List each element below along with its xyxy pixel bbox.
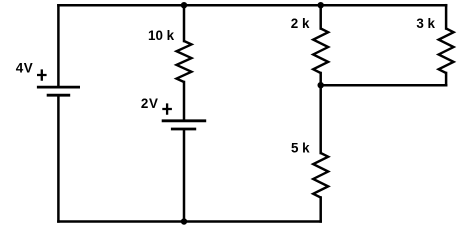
wire 10k to 2V battery: [183, 82, 186, 119]
plus sign of battery V2: [162, 103, 172, 114]
resistor 5k: [313, 153, 328, 198]
wire middle horizontal: [321, 84, 446, 87]
plus sign of battery V1: [37, 69, 47, 80]
resistor 10k: [177, 41, 192, 82]
svg-text:3 k: 3 k: [416, 16, 435, 31]
wire 2k bottom lead: [319, 73, 322, 85]
wire 3k bottom lead: [445, 73, 448, 85]
node junction 2k/5k/3k: [318, 82, 324, 88]
wire top: [58, 4, 446, 7]
wire 2k top lead: [319, 5, 322, 28]
svg-text:2 k: 2 k: [291, 16, 310, 31]
node junction top at 2k branch: [318, 2, 324, 8]
battery V2 2V long plate: [162, 119, 207, 122]
battery V1 4V long plate: [37, 86, 80, 89]
node junction top at 10k branch: [181, 2, 187, 8]
svg-text:4V: 4V: [16, 61, 34, 76]
battery V2 2V short plate: [171, 128, 196, 131]
battery V1 4V short plate: [47, 94, 70, 97]
wire left vertical lower: [57, 96, 60, 222]
wire left vertical upper: [57, 5, 60, 86]
wire 5k bottom lead: [319, 198, 322, 222]
svg-text:10 k: 10 k: [148, 28, 175, 43]
svg-text:5 k: 5 k: [291, 141, 310, 156]
resistor 2k: [313, 29, 328, 74]
svg-text:2V: 2V: [141, 96, 159, 111]
node junction bottom at 2V branch: [181, 218, 187, 224]
wire bottom: [58, 220, 320, 223]
resistor 3k: [439, 29, 454, 74]
wire 10k top lead: [183, 5, 186, 41]
wire 2V battery bottom lead: [183, 130, 186, 222]
wire node to 5k: [319, 85, 322, 153]
wire 3k top lead: [445, 5, 448, 28]
